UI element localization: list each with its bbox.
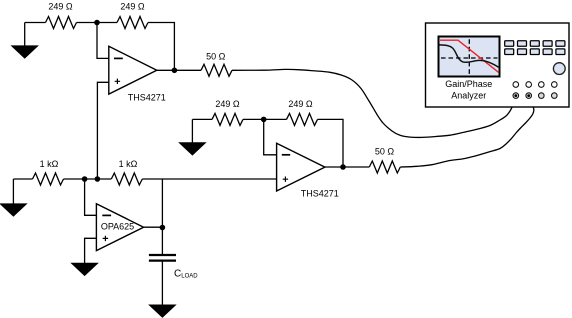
op-amp U1 THS4271	[109, 46, 157, 94]
analyzer connectors	[513, 82, 557, 99]
wire	[97, 23, 109, 59]
node C	[261, 117, 267, 123]
wire	[157, 69, 201, 71]
svg-text:50 Ω: 50 Ω	[206, 52, 226, 62]
wire	[144, 226, 163, 228]
wire	[13, 178, 32, 180]
resistor R2 249ohm feedback	[117, 17, 148, 29]
resistor R1 249ohm	[46, 17, 77, 29]
svg-text:1 kΩ: 1 kΩ	[119, 159, 138, 169]
wire	[264, 119, 277, 154]
resistor R6 50ohm	[369, 161, 400, 173]
wire cable to analyzer input 2	[400, 96, 534, 167]
resistor R5 50ohm	[201, 64, 232, 76]
svg-text:THS4271: THS4271	[301, 189, 339, 199]
wire	[161, 261, 163, 305]
screen gain trace (red)	[440, 40, 499, 72]
gain/phase analyzer box	[426, 23, 570, 107]
node D	[340, 164, 346, 170]
node A	[82, 176, 88, 182]
wire	[161, 228, 163, 256]
node N1	[94, 20, 100, 26]
svg-text:249 Ω: 249 Ω	[120, 2, 145, 12]
capacitor CLOAD	[149, 255, 176, 261]
wire	[325, 166, 369, 168]
wire	[85, 179, 97, 215]
svg-text:1 kΩ: 1 kΩ	[40, 159, 59, 169]
resistor R8 1k	[111, 173, 142, 185]
wire	[85, 238, 97, 263]
screen phase trace (black)	[440, 45, 499, 67]
op-amp U2 THS4271	[277, 143, 325, 191]
ground	[12, 179, 14, 204]
analyzer buttons	[505, 41, 565, 55]
wire cable to analyzer input 1	[232, 69, 516, 137]
resistor R4 249ohm feedback	[287, 113, 318, 125]
wire	[148, 23, 174, 71]
svg-text:249 Ω: 249 Ω	[288, 99, 313, 109]
svg-text:OPA625: OPA625	[101, 221, 134, 231]
wire	[77, 22, 118, 24]
wire	[161, 179, 163, 228]
ground	[191, 119, 193, 142]
node E	[160, 225, 166, 231]
svg-text:Gain/Phase: Gain/Phase	[445, 79, 492, 89]
node N2 output	[172, 68, 178, 74]
node B	[95, 176, 101, 182]
svg-text:CLOAD: CLOAD	[174, 268, 198, 279]
svg-text:Analyzer: Analyzer	[451, 91, 486, 101]
resistor R3 249ohm	[212, 113, 243, 125]
svg-text:249 Ω: 249 Ω	[215, 99, 240, 109]
wire	[318, 119, 344, 167]
wire	[192, 118, 212, 120]
resistor R7 1k	[33, 173, 64, 185]
wire	[25, 22, 46, 24]
wire	[142, 178, 276, 180]
ground	[72, 263, 98, 275]
svg-text:THS4271: THS4271	[128, 93, 166, 103]
svg-text:249 Ω: 249 Ω	[48, 2, 73, 12]
ground	[149, 305, 175, 317]
wire	[64, 178, 112, 180]
analyzer knob	[553, 63, 565, 75]
screen dashed grid	[441, 39, 498, 75]
op-amp U3 OPA625	[96, 204, 143, 251]
connector pin contacts	[514, 94, 517, 97]
analyzer screen	[439, 37, 500, 77]
svg-text:50 Ω: 50 Ω	[375, 147, 395, 157]
wire	[97, 82, 108, 179]
wire	[243, 118, 287, 120]
ground	[24, 23, 26, 46]
